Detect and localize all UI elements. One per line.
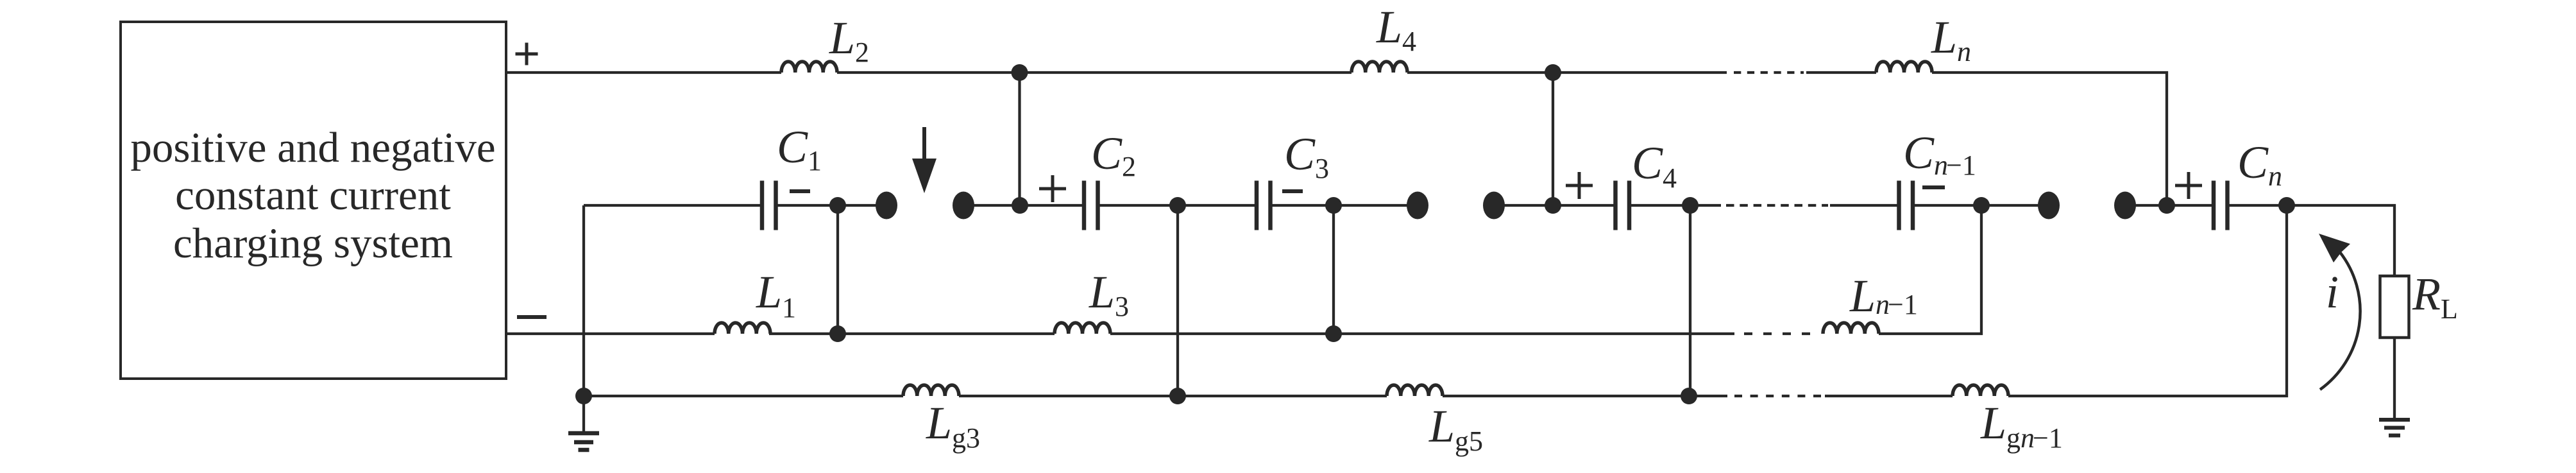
svg-text:Lg5: Lg5 [1428,400,1483,457]
node (3378,320) [2158,197,2175,214]
svg-text:charging system: charging system [173,219,453,267]
switch S1 contact left [876,192,897,219]
node (3089,320) [1973,197,1990,214]
wire ground rail [584,395,903,397]
svg-text:L1: L1 [756,266,796,323]
wire L row right corner [1879,205,1981,334]
inductor L1 [715,323,770,334]
switch S3 contact left [2038,192,2060,219]
wire [1806,71,1876,74]
svg-text:C2: C2 [1091,128,1136,182]
wire [959,395,1387,397]
svg-text:positive and negative: positive and negative [130,124,495,171]
switch S1 arrow [922,127,926,162]
wire ground rail right corner [2008,205,2287,396]
wire [1913,204,2040,207]
wire [776,204,878,207]
node (1836,320) [1169,197,1186,214]
wire [1110,332,1734,335]
capacitor Cn [2214,181,2228,230]
svg-text:L3: L3 [1089,266,1129,322]
wire [584,204,762,207]
node (2421,320) [1545,197,1561,214]
svg-text:C4: C4 [1632,137,1677,194]
wire vertical node D [1552,73,1554,205]
plus terminal [516,43,538,65]
svg-text:Ln: Ln [1931,12,1971,67]
wire vertical C1-L1 [836,205,839,334]
wire [1503,204,1616,207]
node (1306,520) [829,325,846,342]
svg-text:L2: L2 [829,12,869,68]
node (2079,320) [1325,197,1342,214]
svg-text:C3: C3 [1284,128,1329,184]
switch S2 contact right [1483,192,1505,219]
wire [1825,395,1953,397]
charging system box [121,22,506,379]
node (910,617) [575,388,592,404]
svg-text:Ln−1: Ln−1 [1849,270,1918,322]
wire dashed L row [1744,332,1816,335]
wire to load [2228,205,2395,276]
minus terminal [517,315,547,319]
inductor L3 [1055,323,1110,334]
wire [1830,204,1899,207]
wire vertical left branch [582,205,585,396]
inductor L2 [781,62,837,73]
svg-text:L4: L4 [1376,1,1416,57]
wire top rail right corner [1932,73,2167,205]
wire [1443,395,1727,397]
polarity minus C3 [1282,189,1303,193]
wire [1629,204,1721,207]
capacitor C1 [762,181,776,230]
switch S1 contact right [953,192,974,219]
switch S2 contact left [1407,192,1428,219]
node (2633,617) [1681,388,1697,404]
capacitor C2 [1084,181,1098,230]
svg-text:i: i [2326,266,2339,318]
wire vertical C4 to ground rail [1689,205,1691,396]
wire [2134,204,2214,207]
svg-text:RL: RL [2412,268,2458,325]
node (1306,320) [829,197,846,214]
svg-text:Cn: Cn [2237,137,2282,192]
wire dashed top rail [1734,71,1804,74]
inductor Ln-1 [1823,323,1879,334]
svg-text:C1: C1 [777,121,822,176]
ground right [2393,418,2396,420]
wire RL to ground [2393,338,2396,418]
node (2635,320) [1682,197,1699,214]
polarity minus Cn-1 [1922,185,1945,189]
svg-text:Lgn−1: Lgn−1 [1980,397,2063,454]
node (1590,320) [1012,197,1028,214]
switch S3 contact right [2114,192,2136,219]
node (1589.5,113) [1012,64,1028,81]
capacitor Cn-1 [1899,181,1913,230]
resistor RL [2380,276,2409,338]
polarity plus C4 [1566,172,1593,199]
svg-text:constant current: constant current [175,171,451,219]
wire vertical node B [1018,73,1021,205]
wire [769,332,1055,335]
inductor Lg5 [1387,385,1443,396]
wire minus rail [506,332,715,335]
wire vertical C3-L3 [1332,205,1335,334]
current arrow i [2320,252,2360,390]
wire dashed ground rail [1734,395,1825,397]
capacitor C4 [1616,181,1630,230]
wire vertical C2 to ground rail [1176,205,1179,396]
polarity plus C2 [1039,175,1066,202]
inductor Lg3 [903,385,959,396]
inductor Ln [1876,62,1932,73]
wire dashed middle row [1726,204,1828,207]
capacitor C3 [1257,181,1271,230]
wire [1407,71,1727,74]
polarity minus C1 [790,189,810,193]
ground left [582,396,585,433]
node (1836,617) [1169,388,1186,404]
node (2079,520) [1325,325,1342,342]
node (3565,320) [2278,197,2295,214]
svg-text:Lg3: Lg3 [926,397,980,454]
wire [1098,204,1257,207]
wire [837,71,1352,74]
node (2421,113) [1545,64,1561,81]
svg-text:Cn−1: Cn−1 [1903,127,1976,181]
inductor L4 [1352,62,1407,73]
wire [972,204,1084,207]
polarity plus Cn [2175,172,2202,199]
wire top rail [506,71,781,74]
inductor Lgn-1 [1953,385,2008,396]
wire [1271,204,1409,207]
